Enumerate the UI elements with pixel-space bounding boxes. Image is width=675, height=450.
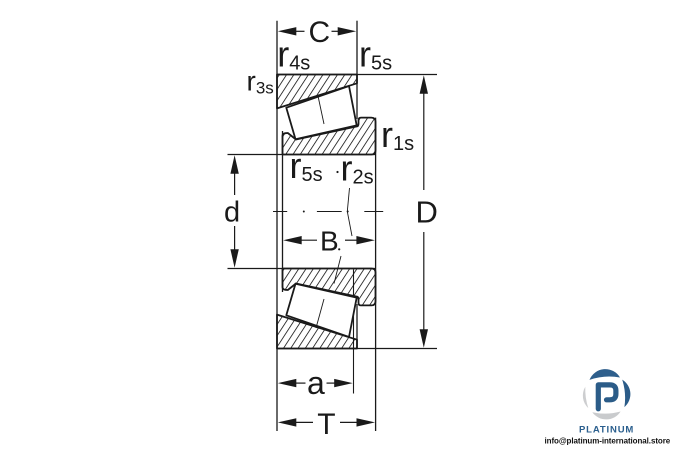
- svg-text:r5s: r5s: [359, 34, 392, 75]
- inner ring (cone) top section, hatched: [283, 118, 376, 155]
- wire: bottom bore line y=268.5: [228, 268, 376, 270]
- inner ring (cone) bottom section, hatched: [283, 269, 376, 306]
- svg-text:C: C: [309, 16, 331, 49]
- logo: petal left (gray): [583, 387, 588, 408]
- dimension T: line and arrows at y=422.4: [278, 418, 375, 426]
- node: centerline dash-dot y=211.5: [273, 211, 383, 213]
- svg-text:r3s: r3s: [247, 66, 274, 98]
- leader line below B label: [334, 256, 341, 284]
- wire: vertical extension x=277 (cup back face / C,a,T extension): [276, 21, 278, 431]
- svg-text:PLATINUM: PLATINUM: [579, 425, 634, 436]
- svg-text:info@platinum-international.st: info@platinum-international.store: [545, 437, 671, 446]
- logo: P glyph: [598, 385, 616, 409]
- logo: petal bottom (gray): [592, 412, 620, 420]
- wire: top bore line y=154.5: [228, 154, 376, 156]
- svg-text:r4s: r4s: [277, 34, 310, 75]
- leader line inside top roller (r2s pointer): [318, 96, 324, 124]
- wire: vertical extension x=353.5 (load centre / a extension): [353, 270, 355, 394]
- svg-text:a: a: [307, 365, 325, 401]
- leader line from r2s label down to B arrow: [347, 188, 352, 236]
- dimension a: line and arrows at y=383.1: [278, 379, 353, 387]
- svg-text:r1s: r1s: [381, 114, 414, 155]
- wire: vertical extension x=357 top (cup front face / C extension): [356, 21, 358, 119]
- logo: petal right (blue): [622, 380, 630, 408]
- wire: vertical x=357 bottom (cup front face bottom half): [356, 304, 358, 349]
- wire: vertical extension x=282.5 (cone front face / B extension): [282, 131, 284, 292]
- dot after B (dash-dot leader): [338, 248, 340, 250]
- svg-text:d: d: [224, 197, 240, 229]
- svg-text:D: D: [416, 195, 438, 230]
- tapered roller, bottom: [286, 284, 356, 337]
- dimension C: line and arrows at y=31.3: [278, 27, 356, 35]
- outer ring (cup) bottom section, hatched: [277, 315, 357, 349]
- dimension B: line and arrows at y=240.2: [283, 236, 375, 244]
- svg-text:T: T: [317, 408, 335, 441]
- leader line inside bottom roller: [316, 299, 324, 328]
- wire: vertical extension x=375.6 (cone back face / B,T extension): [375, 118, 377, 431]
- wire: bottom outer line y=348.5: [277, 348, 437, 350]
- svg-text:B: B: [320, 226, 339, 257]
- tapered roller, top: [286, 86, 356, 139]
- dimension d: vertical line x=234.6: [230, 155, 238, 267]
- outer ring (cup) top section, hatched: [277, 75, 357, 109]
- logo: white centre circle: [589, 378, 623, 412]
- dimension D: vertical line x=423.8: [420, 75, 428, 347]
- wire: top outer line y=74.5 (cup OD extension to D line): [277, 74, 437, 76]
- logo: petal top (blue): [590, 369, 621, 380]
- dot before r2s: [336, 171, 338, 173]
